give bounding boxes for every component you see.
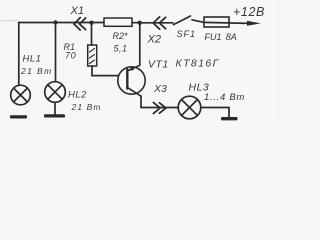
svg-text:70: 70 (65, 51, 76, 61)
svg-text:5,1: 5,1 (114, 44, 128, 54)
lamp HL3 (178, 96, 201, 119)
lamp HL2 (45, 82, 66, 103)
wire through fuse to arrow (204, 22, 248, 23)
svg-text:21 Вт: 21 Вт (20, 66, 53, 76)
node junction dot emitter (138, 21, 142, 25)
lamp HL1 (11, 85, 31, 105)
resistor R1 (88, 45, 97, 66)
wire top rail left (19, 22, 105, 24)
label X2 (147, 34, 161, 46)
fuse FU1 (204, 17, 229, 27)
label R2 value 5,1 (114, 44, 128, 54)
svg-text:FU1 8А: FU1 8А (205, 32, 237, 42)
transistor VT1 emitter arrow (PNP) (129, 66, 135, 71)
transistor VT1 (118, 65, 145, 96)
svg-text:КТ816Г: КТ816Г (176, 58, 220, 70)
svg-text:SF1: SF1 (177, 29, 197, 39)
ground HL2 (44, 114, 65, 117)
label VT1 (148, 59, 169, 71)
label X3 (153, 83, 167, 95)
supply arrow +12В (247, 21, 261, 26)
connector X1 (74, 18, 86, 30)
connector X2 (153, 17, 165, 29)
switch SF1 fixed contact (192, 20, 204, 23)
resistor R2 (104, 18, 132, 26)
wire faint stub left of corner (1, 20, 17, 22)
label HL2 value 21 Вт (71, 102, 102, 112)
wire HL2 to ground (54, 102, 56, 114)
label R1 (64, 42, 76, 52)
node junction dot R1 top (89, 21, 93, 25)
label SF1 (177, 29, 197, 39)
svg-text:HL2: HL2 (68, 90, 87, 101)
ground HL3 (221, 117, 238, 120)
svg-text:VT1: VT1 (148, 59, 169, 71)
switch SF1 blade (174, 16, 191, 25)
wire HL3 to ground (201, 108, 229, 118)
svg-text:R2*: R2* (113, 31, 129, 41)
ground HL1 (10, 115, 27, 118)
wire R1 top lead (91, 23, 93, 45)
label HL1 value 21 Вт (20, 66, 53, 76)
svg-text:X3: X3 (153, 83, 167, 95)
svg-text:+12В: +12В (233, 5, 265, 19)
label HL3 value 1...4 Вт (204, 92, 245, 103)
wire collector down (140, 96, 142, 108)
node junction dot HL2 (53, 20, 57, 24)
label X1 (70, 5, 84, 17)
svg-text:X1: X1 (70, 5, 84, 17)
wire X2 to switch (140, 22, 173, 24)
svg-text:X2: X2 (147, 34, 161, 46)
label HL1 (23, 54, 42, 65)
connector X3 (153, 102, 166, 113)
label VT1 type КТ816Г (176, 58, 220, 70)
wire R1 bottom lead to base (92, 66, 118, 76)
wire bottom rail to HL3 (141, 107, 178, 109)
label R1 value 70 (65, 51, 76, 61)
label FU1 8А (205, 32, 237, 42)
label HL3 (189, 82, 210, 94)
label R2 (113, 31, 129, 41)
svg-text:HL1: HL1 (23, 54, 42, 65)
svg-text:21 Вт: 21 Вт (71, 102, 102, 112)
wire HL2 drop (55, 23, 57, 82)
svg-text:1...4 Вт: 1...4 Вт (204, 92, 245, 103)
wire HL1 drop (18, 23, 20, 86)
label +12В (233, 5, 265, 19)
wire emitter vertical (139, 23, 141, 66)
wire R2 right lead (132, 22, 140, 24)
label HL2 (68, 90, 87, 101)
